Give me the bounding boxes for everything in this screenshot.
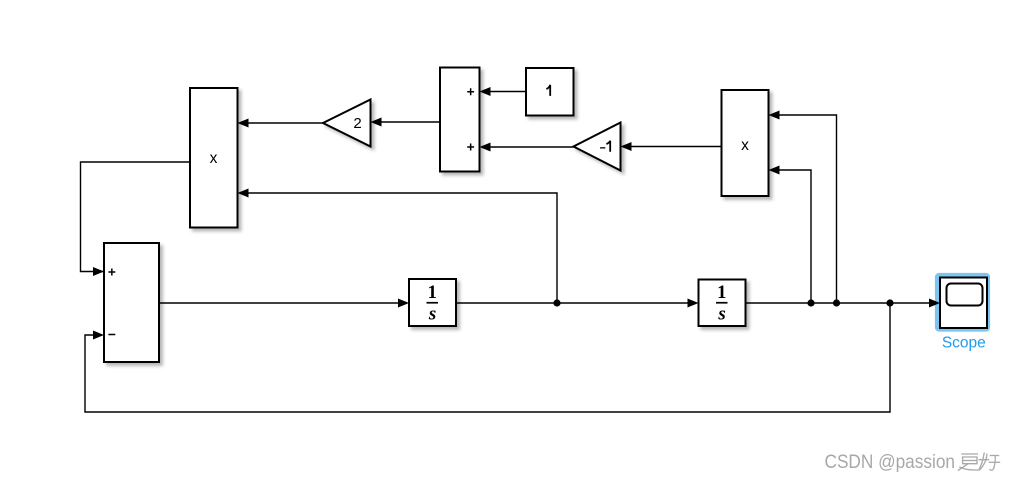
svg-text:x: x bbox=[210, 150, 218, 167]
gain G2 bbox=[323, 100, 371, 147]
node C junction dot bbox=[807, 299, 814, 306]
wire constant1 to sum1 upper input bbox=[483, 91, 527, 93]
label 1/s of integrator I1 bbox=[427, 282, 439, 324]
wire gain G2 output to product1 upper input bbox=[241, 122, 324, 124]
scope input arrow bbox=[929, 299, 940, 308]
gain G-1 bbox=[574, 123, 621, 171]
scope block bbox=[940, 278, 987, 329]
watermark glyph HAO bbox=[979, 453, 1001, 471]
wire gain G-1 to sum1 lower input bbox=[483, 146, 574, 148]
svg-text:1: 1 bbox=[428, 282, 438, 303]
constant C1 bbox=[526, 68, 574, 116]
wire branch up from node B to product1 lower input bbox=[241, 193, 558, 303]
sum S2 bbox=[104, 243, 159, 362]
scope screen icon bbox=[947, 284, 983, 306]
wire integrator I2 to Scope bbox=[746, 302, 938, 304]
wire branch up to product2 lower input bbox=[772, 170, 812, 303]
wire sum2 output to integrator I1 bbox=[159, 302, 406, 304]
label 1/s of integrator I2 bbox=[716, 282, 728, 324]
integrator I2 bbox=[699, 280, 746, 327]
sum S1 bbox=[440, 68, 480, 172]
svg-text:CSDN @passion: CSDN @passion bbox=[825, 451, 956, 473]
minus sign lower port of sum S2 bbox=[108, 334, 115, 336]
plus sign upper port of sum S1 bbox=[467, 88, 474, 95]
value label 1 of constant C1 bbox=[546, 85, 550, 96]
wire sum1 output to gain G2 input bbox=[374, 121, 441, 123]
watermark glyph GENG bbox=[958, 454, 979, 471]
value label -1 of gain G3 bbox=[600, 141, 610, 152]
svg-text:1: 1 bbox=[717, 282, 727, 303]
wire product2 output to gain G-1 input bbox=[624, 146, 722, 148]
plus sign upper port of sum S2 bbox=[108, 269, 115, 276]
svg-text:s: s bbox=[428, 303, 436, 324]
svg-text:x: x bbox=[741, 137, 749, 154]
product P1 bbox=[190, 88, 238, 228]
node E junction dot bbox=[886, 299, 893, 306]
node B junction dot bbox=[553, 299, 560, 306]
wire feedback from node E down around to sum2 minus input bbox=[85, 303, 890, 412]
wire product1 output to sum2 plus input bbox=[81, 162, 191, 272]
svg-text:2: 2 bbox=[353, 115, 361, 132]
node D junction dot bbox=[833, 299, 840, 306]
plus sign lower port of sum S1 bbox=[467, 144, 474, 151]
svg-text:s: s bbox=[717, 303, 725, 324]
wire integrator I1 to integrator I2 bbox=[456, 302, 696, 304]
integrator I1 bbox=[409, 279, 456, 326]
svg-text:Scope: Scope bbox=[942, 335, 986, 352]
scope selection highlight bbox=[938, 276, 988, 330]
wire branch up to product2 upper input bbox=[772, 115, 837, 303]
product P2 bbox=[722, 90, 769, 196]
